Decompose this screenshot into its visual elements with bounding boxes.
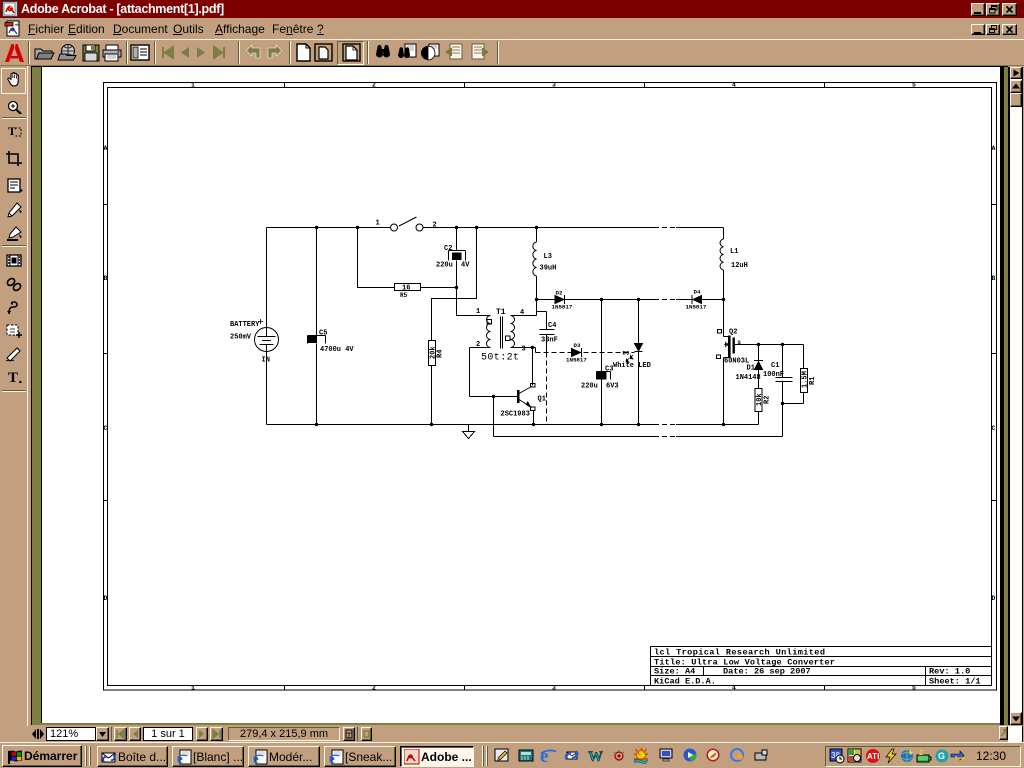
svg-text:White LED: White LED <box>613 362 651 370</box>
svg-text:2: 2 <box>372 685 376 692</box>
svg-text:5: 5 <box>912 685 916 692</box>
svg-text:1N5817: 1N5817 <box>552 304 573 311</box>
svg-text:B: B <box>104 275 108 282</box>
svg-text:1: 1 <box>191 685 195 692</box>
svg-text:4V: 4V <box>461 262 470 270</box>
svg-text:220u: 220u <box>436 262 453 270</box>
svg-text:1N5817: 1N5817 <box>566 357 587 364</box>
svg-text:ATI: ATI <box>867 752 879 761</box>
svg-text:4: 4 <box>520 309 524 317</box>
svg-text:lcl Tropical Research Unlimite: lcl Tropical Research Unlimited <box>654 648 825 658</box>
svg-text:Q2: Q2 <box>729 329 737 337</box>
svg-text:KiCad E.D.A.: KiCad E.D.A. <box>654 677 716 687</box>
svg-text:R4: R4 <box>437 350 445 358</box>
svg-text:A: A <box>104 145 108 152</box>
svg-text:D5: D5 <box>623 350 630 357</box>
svg-text:T: T <box>8 370 18 386</box>
svg-text:R2: R2 <box>764 396 772 404</box>
svg-text:Date: 26 sep 2007: Date: 26 sep 2007 <box>723 667 811 677</box>
svg-text:1N4148: 1N4148 <box>736 374 761 382</box>
svg-text:60N03L: 60N03L <box>724 358 749 366</box>
svg-text:1: 1 <box>191 82 195 89</box>
svg-text:R5: R5 <box>400 292 408 299</box>
svg-text:50t:2t: 50t:2t <box>481 353 519 364</box>
svg-text:T: T <box>8 124 16 138</box>
svg-text:4: 4 <box>732 82 736 89</box>
svg-text:Rev: 1.0: Rev: 1.0 <box>929 667 970 677</box>
svg-text:Size: A4: Size: A4 <box>654 667 695 677</box>
svg-text:D4: D4 <box>694 289 701 296</box>
svg-text:2SC1983: 2SC1983 <box>501 411 530 419</box>
svg-text:Sheet: 1/1: Sheet: 1/1 <box>929 677 981 687</box>
svg-text:D: D <box>104 595 108 602</box>
svg-text:C4: C4 <box>548 322 556 330</box>
svg-text:C: C <box>104 425 108 432</box>
svg-text:B: B <box>992 275 996 282</box>
svg-text:1: 1 <box>476 308 480 316</box>
svg-text:D2: D2 <box>556 290 563 297</box>
svg-text:5: 5 <box>912 82 916 89</box>
svg-text:IN: IN <box>262 357 270 365</box>
svg-text:Q1: Q1 <box>538 396 546 404</box>
svg-text:T1: T1 <box>496 308 506 317</box>
svg-text:4700u 4V: 4700u 4V <box>320 346 354 354</box>
svg-text:3: 3 <box>552 82 556 89</box>
svg-text:3: 3 <box>522 346 526 354</box>
svg-text:2: 2 <box>476 341 480 349</box>
svg-text:12uH: 12uH <box>731 262 748 270</box>
svg-text:39uH: 39uH <box>540 265 557 273</box>
svg-text:R1: R1 <box>809 377 817 385</box>
svg-text:220u: 220u <box>581 383 598 391</box>
svg-text:Z: Z <box>919 750 924 757</box>
svg-text:C5: C5 <box>319 330 327 338</box>
svg-text:6V3: 6V3 <box>606 383 619 391</box>
svg-text:BATTERY: BATTERY <box>230 321 260 329</box>
svg-text:1N5817: 1N5817 <box>686 304 707 311</box>
svg-text:W: W <box>588 749 603 764</box>
svg-text:L3: L3 <box>544 253 552 261</box>
svg-text:100nF: 100nF <box>763 371 784 379</box>
svg-text:G: G <box>938 751 945 761</box>
svg-text:C2: C2 <box>444 245 452 253</box>
svg-text:D3: D3 <box>574 342 581 349</box>
svg-text:2: 2 <box>433 222 437 230</box>
svg-text:33nF: 33nF <box>541 337 558 345</box>
svg-text:250mV: 250mV <box>230 334 252 342</box>
svg-text:D: D <box>992 595 996 602</box>
svg-text:A: A <box>992 145 996 152</box>
svg-text:C: C <box>992 425 996 432</box>
svg-text:3: 3 <box>552 685 556 692</box>
svg-text:e: e <box>540 747 548 764</box>
svg-text:1: 1 <box>376 220 380 228</box>
svg-text:D1: D1 <box>747 365 755 373</box>
svg-text:C1: C1 <box>771 362 779 370</box>
svg-text:2: 2 <box>372 82 376 89</box>
svg-text:L1: L1 <box>730 248 738 256</box>
svg-text:4: 4 <box>732 685 736 692</box>
